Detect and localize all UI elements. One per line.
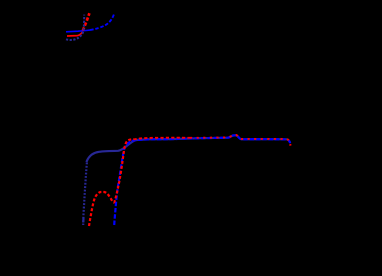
top blue dashed rise: [90, 13, 114, 30]
bottom navy dotted dip branch: [83, 163, 87, 226]
bottom red dashed plateau left: [134, 138, 191, 140]
top red solid horizontal: [67, 32, 83, 36]
top red steep dashed: [83, 13, 90, 30]
top navy dashed: [66, 15, 84, 40]
bottom red dashed rise: [89, 139, 134, 226]
bottom navy solid curve + plateau: [86, 135, 287, 162]
end hook navy reinforcement: [287, 139, 290, 142]
end hook solid blue reinforcement: [287, 140, 290, 144]
bottom red dashed plateau right: [190, 135, 291, 145]
top blue solid horizontal: [66, 30, 90, 32]
end hook red tip: [289, 144, 291, 145]
bottom navy dip branch lower solid segment: [82, 218, 84, 223]
bottom blue dashed: [114, 135, 290, 225]
